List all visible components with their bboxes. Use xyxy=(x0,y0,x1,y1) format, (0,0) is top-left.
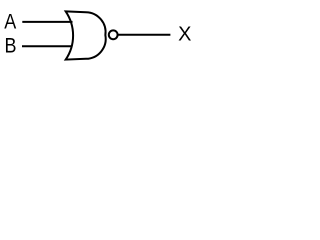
svg-text:A: A xyxy=(4,10,17,34)
svg-text:B: B xyxy=(5,34,17,58)
svg-text:X: X xyxy=(178,24,191,46)
